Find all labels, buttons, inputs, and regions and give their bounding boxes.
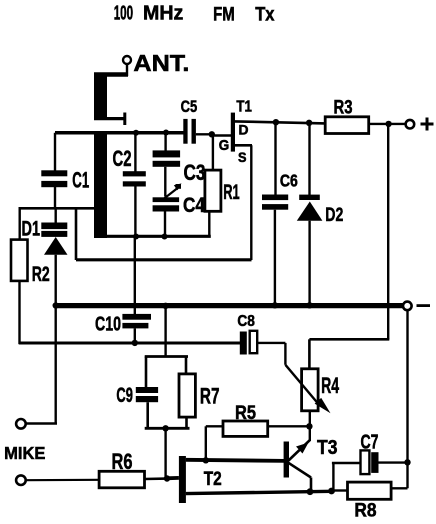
svg-text:C6: C6 [280, 171, 298, 191]
svg-text:C1: C1 [72, 168, 89, 193]
wire to R2 [19, 208, 21, 240]
resistor R8 [332, 482, 392, 521]
C9 R7 feed wire [164, 306, 166, 357]
capacitor C1 [41, 133, 89, 210]
oscillator bottom rail [94, 235, 211, 238]
audio line [19, 342, 241, 345]
svg-text:S: S [238, 149, 247, 165]
drain supply line [235, 121, 325, 123]
svg-text:C5: C5 [181, 97, 198, 116]
transistor T2 [179, 456, 332, 503]
mike terminal [16, 475, 26, 485]
wire down to base node [164, 428, 166, 479]
electrolytic C8 [237, 313, 285, 365]
svg-text:R1: R1 [223, 181, 240, 204]
junction R3 right [385, 121, 391, 127]
junction C6 top [273, 119, 279, 125]
minus rail [55, 303, 403, 308]
resistor R1 [205, 134, 240, 237]
junction C10 crossing [132, 303, 138, 309]
C9 R7 top bracket [145, 355, 188, 358]
junction C5 gate node [209, 131, 215, 137]
junction D2 on minus rail [306, 302, 312, 308]
svg-text:C8: C8 [237, 313, 255, 330]
svg-text:G: G [219, 137, 230, 154]
antenna terminal [123, 56, 131, 64]
svg-text:T3: T3 [317, 437, 338, 459]
capacitor C10 [95, 237, 151, 345]
svg-text:C9: C9 [116, 384, 132, 407]
capacitor C9 [116, 357, 158, 429]
junction C10 bottom [132, 340, 138, 346]
plus sign [421, 123, 434, 126]
svg-text:MHz: MHz [143, 3, 183, 25]
electrolytic C7 [332, 432, 408, 491]
svg-text:R5: R5 [235, 403, 256, 424]
junction D2 top [306, 120, 312, 126]
junction C7 R8 left [328, 488, 335, 495]
svg-text:C10: C10 [95, 313, 121, 336]
FET T1 [213, 98, 252, 260]
mike upper terminal [16, 419, 26, 429]
wire horizontal to R4 feed [309, 338, 389, 341]
svg-text:R8: R8 [354, 501, 376, 522]
coil tap end tick [123, 113, 126, 126]
svg-text:T1: T1 [236, 98, 252, 115]
wire to mike upper terminal [25, 422, 57, 425]
svg-text:D2: D2 [325, 205, 343, 226]
varicap diode D1 [22, 210, 68, 425]
junction R4 bottom R5 right [306, 423, 312, 429]
zener diode D2 [297, 123, 344, 304]
svg-text:C3: C3 [184, 160, 206, 185]
wire antenna to coil [126, 65, 128, 77]
wire mike to R6 [26, 479, 99, 482]
minus terminal [403, 302, 412, 311]
svg-text:D: D [239, 122, 249, 138]
top rail node [55, 131, 184, 135]
svg-text:C2: C2 [113, 146, 132, 171]
resistor R7 [179, 357, 220, 429]
capacitor C5 [181, 97, 212, 144]
svg-text:100: 100 [114, 3, 133, 25]
source return rail [76, 258, 252, 261]
junction C6 on minus rail [272, 302, 278, 308]
C9 R7 bottom bracket [145, 427, 190, 430]
junction C7 right [404, 459, 410, 465]
junction R6 base node [164, 475, 170, 481]
coil tap arm [94, 117, 124, 120]
resistor R5 [206, 403, 310, 460]
junction R5 left on T2 collector line [203, 457, 209, 463]
wire R3 junction down [387, 124, 389, 340]
junction C9 feed on minus rail [162, 303, 168, 309]
svg-text:D1: D1 [22, 217, 41, 240]
capacitor C6 [262, 122, 298, 304]
trimmer capacitor C4 [153, 183, 206, 237]
capacitor C2 [113, 130, 146, 237]
svg-text:R6: R6 [112, 449, 133, 474]
coil L1 lower bar [94, 131, 107, 238]
svg-text:MIKE: MIKE [4, 443, 45, 463]
junction T3 emitter [307, 488, 314, 495]
trimmer resistor R4 [285, 365, 339, 441]
svg-text:FM: FM [213, 5, 235, 26]
wire to R8 right [391, 487, 408, 489]
resistor R6 [99, 449, 179, 488]
svg-text:R4: R4 [321, 373, 339, 398]
minus sign [417, 304, 431, 307]
transistor T3 [284, 437, 338, 492]
junction C9 R7 bottom [162, 425, 168, 431]
junction D1 on minus rail [53, 302, 59, 308]
svg-text:T2: T2 [204, 469, 222, 490]
title 100 MHz FM Tx [114, 3, 275, 26]
coil L1 top arm [94, 72, 128, 77]
svg-text:R7: R7 [200, 384, 220, 409]
svg-text:C7: C7 [361, 432, 379, 454]
plus terminal [406, 120, 415, 129]
wire down to R4 [308, 339, 311, 370]
wire node A horizontal [19, 207, 95, 210]
coil L1 upper bar [94, 73, 107, 121]
svg-text:C4: C4 [183, 194, 205, 217]
wire rail left riser [75, 208, 78, 260]
wire minus terminal down [406, 310, 408, 488]
junction C4 bottom [162, 234, 168, 240]
svg-text:ANT.: ANT. [133, 50, 189, 76]
svg-text:R3: R3 [334, 98, 353, 119]
svg-text:R2: R2 [32, 263, 50, 286]
svg-text:Tx: Tx [255, 5, 275, 26]
junction C2 bottom [133, 234, 139, 240]
resistor R3 [325, 98, 405, 134]
resistor R2 [11, 240, 50, 344]
capacitor C3 [153, 130, 206, 197]
